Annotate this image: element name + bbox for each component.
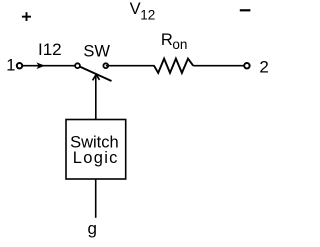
wire gate to switch bbox=[95, 77, 97, 121]
switch contact left bbox=[75, 63, 80, 68]
terminal port 1 bbox=[17, 63, 22, 68]
resistor Ron bbox=[154, 59, 193, 73]
node plus sign (V12 polarity +) bbox=[22, 12, 31, 21]
terminal port 2 bbox=[244, 63, 249, 68]
switch SW blade bbox=[80, 67, 112, 81]
svg-text:SW: SW bbox=[83, 42, 110, 60]
svg-text:on: on bbox=[172, 37, 187, 52]
current arrow I12 bbox=[36, 62, 45, 69]
svg-text:Logic: Logic bbox=[73, 149, 119, 167]
label V12 bbox=[130, 0, 156, 22]
wire resistor to terminal2 bbox=[193, 65, 247, 67]
svg-text:2: 2 bbox=[259, 58, 268, 77]
switch logic box U1 bbox=[66, 120, 126, 180]
wire box to gate g bbox=[95, 179, 97, 218]
svg-text:12: 12 bbox=[140, 7, 155, 22]
svg-text:R: R bbox=[161, 31, 173, 49]
svg-text:I12: I12 bbox=[38, 40, 62, 59]
svg-text:g: g bbox=[88, 219, 97, 238]
label Switch Logic bbox=[70, 133, 119, 167]
svg-text:V: V bbox=[130, 0, 141, 18]
wire terminal1 to switch bbox=[20, 65, 78, 67]
gate actuation arrowhead bbox=[93, 75, 100, 81]
wire switch to resistor bbox=[106, 65, 155, 67]
node minus sign (V12 polarity -) bbox=[240, 9, 251, 11]
label Ron bbox=[161, 31, 188, 52]
switch contact right bbox=[103, 63, 108, 68]
svg-text:1: 1 bbox=[6, 56, 15, 74]
